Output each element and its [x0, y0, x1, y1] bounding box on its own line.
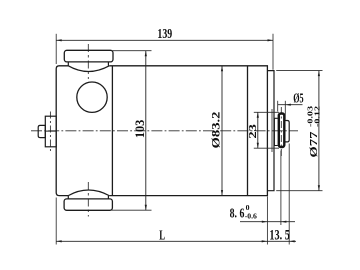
left end-cap seam	[111, 66, 113, 196]
top cap arc	[68, 66, 109, 72]
terminal centerline	[49, 112, 51, 152]
dim Ø77 extension lines	[276, 70, 322, 72]
rear boss (Ø77 spigot)	[267, 71, 274, 191]
dim Ø5 leader	[278, 104, 303, 106]
svg-text:13. 5: 13. 5	[269, 227, 289, 243]
main horizontal centerline	[31, 130, 298, 132]
dim 8.6 line	[240, 221, 295, 223]
svg-text:23: 23	[248, 124, 259, 139]
top cap right step wall	[107, 62, 109, 66]
svg-text:-0.12: -0.12	[313, 106, 322, 127]
top cap centerline	[87, 44, 89, 79]
washer behind bearing	[274, 118, 277, 145]
bottom cap left step wall	[67, 196, 69, 199]
dim 103 line	[145, 51, 147, 211]
terminal nub	[38, 125, 45, 137]
svg-text:-0.6: -0.6	[245, 211, 257, 220]
dim L left extension	[55, 198, 57, 245]
dim 23 line	[257, 112, 259, 148]
terminal block	[45, 116, 56, 147]
svg-text:8. 6: 8. 6	[230, 207, 245, 222]
bearing centerline	[280, 107, 282, 156]
dim Ø77 line	[318, 71, 320, 191]
dim Ø77 tolerance text	[306, 106, 322, 158]
dim 139 line	[56, 39, 273, 41]
svg-text:Ø5: Ø5	[293, 90, 304, 105]
dim Ø5 extension lines	[277, 101, 279, 112]
terminal mid line	[45, 130, 56, 132]
inspection hole circle	[77, 82, 107, 112]
bearing ring	[279, 114, 285, 148]
hidden step line	[271, 109, 273, 152]
svg-text:L: L	[159, 227, 165, 242]
svg-text:103: 103	[133, 120, 147, 138]
top brush cap	[64, 50, 113, 62]
dim 13.5 extension line	[288, 144, 290, 245]
bottom brush cap	[64, 199, 112, 210]
svg-text:139: 139	[157, 27, 172, 42]
svg-text:Ø83.2: Ø83.2	[209, 112, 223, 149]
dim 139 extension lines	[55, 34, 57, 64]
bottom cap right step wall	[107, 196, 109, 199]
dim Ø83.2 line	[221, 66, 223, 196]
dim 8.6 extension lines	[266, 197, 268, 245]
top cap left step wall	[67, 62, 69, 66]
motor body outline	[56, 66, 267, 196]
bottom cap centerline	[87, 182, 89, 217]
bottom dimension line L and 13.5	[56, 240, 296, 242]
shaft end nub	[285, 121, 289, 142]
dim 103 extension lines	[112, 50, 152, 52]
dim 23 extension lines	[254, 111, 279, 113]
svg-text:Ø77: Ø77	[308, 131, 320, 158]
right end-cap seam	[247, 66, 249, 196]
bottom cap arc	[68, 190, 109, 196]
